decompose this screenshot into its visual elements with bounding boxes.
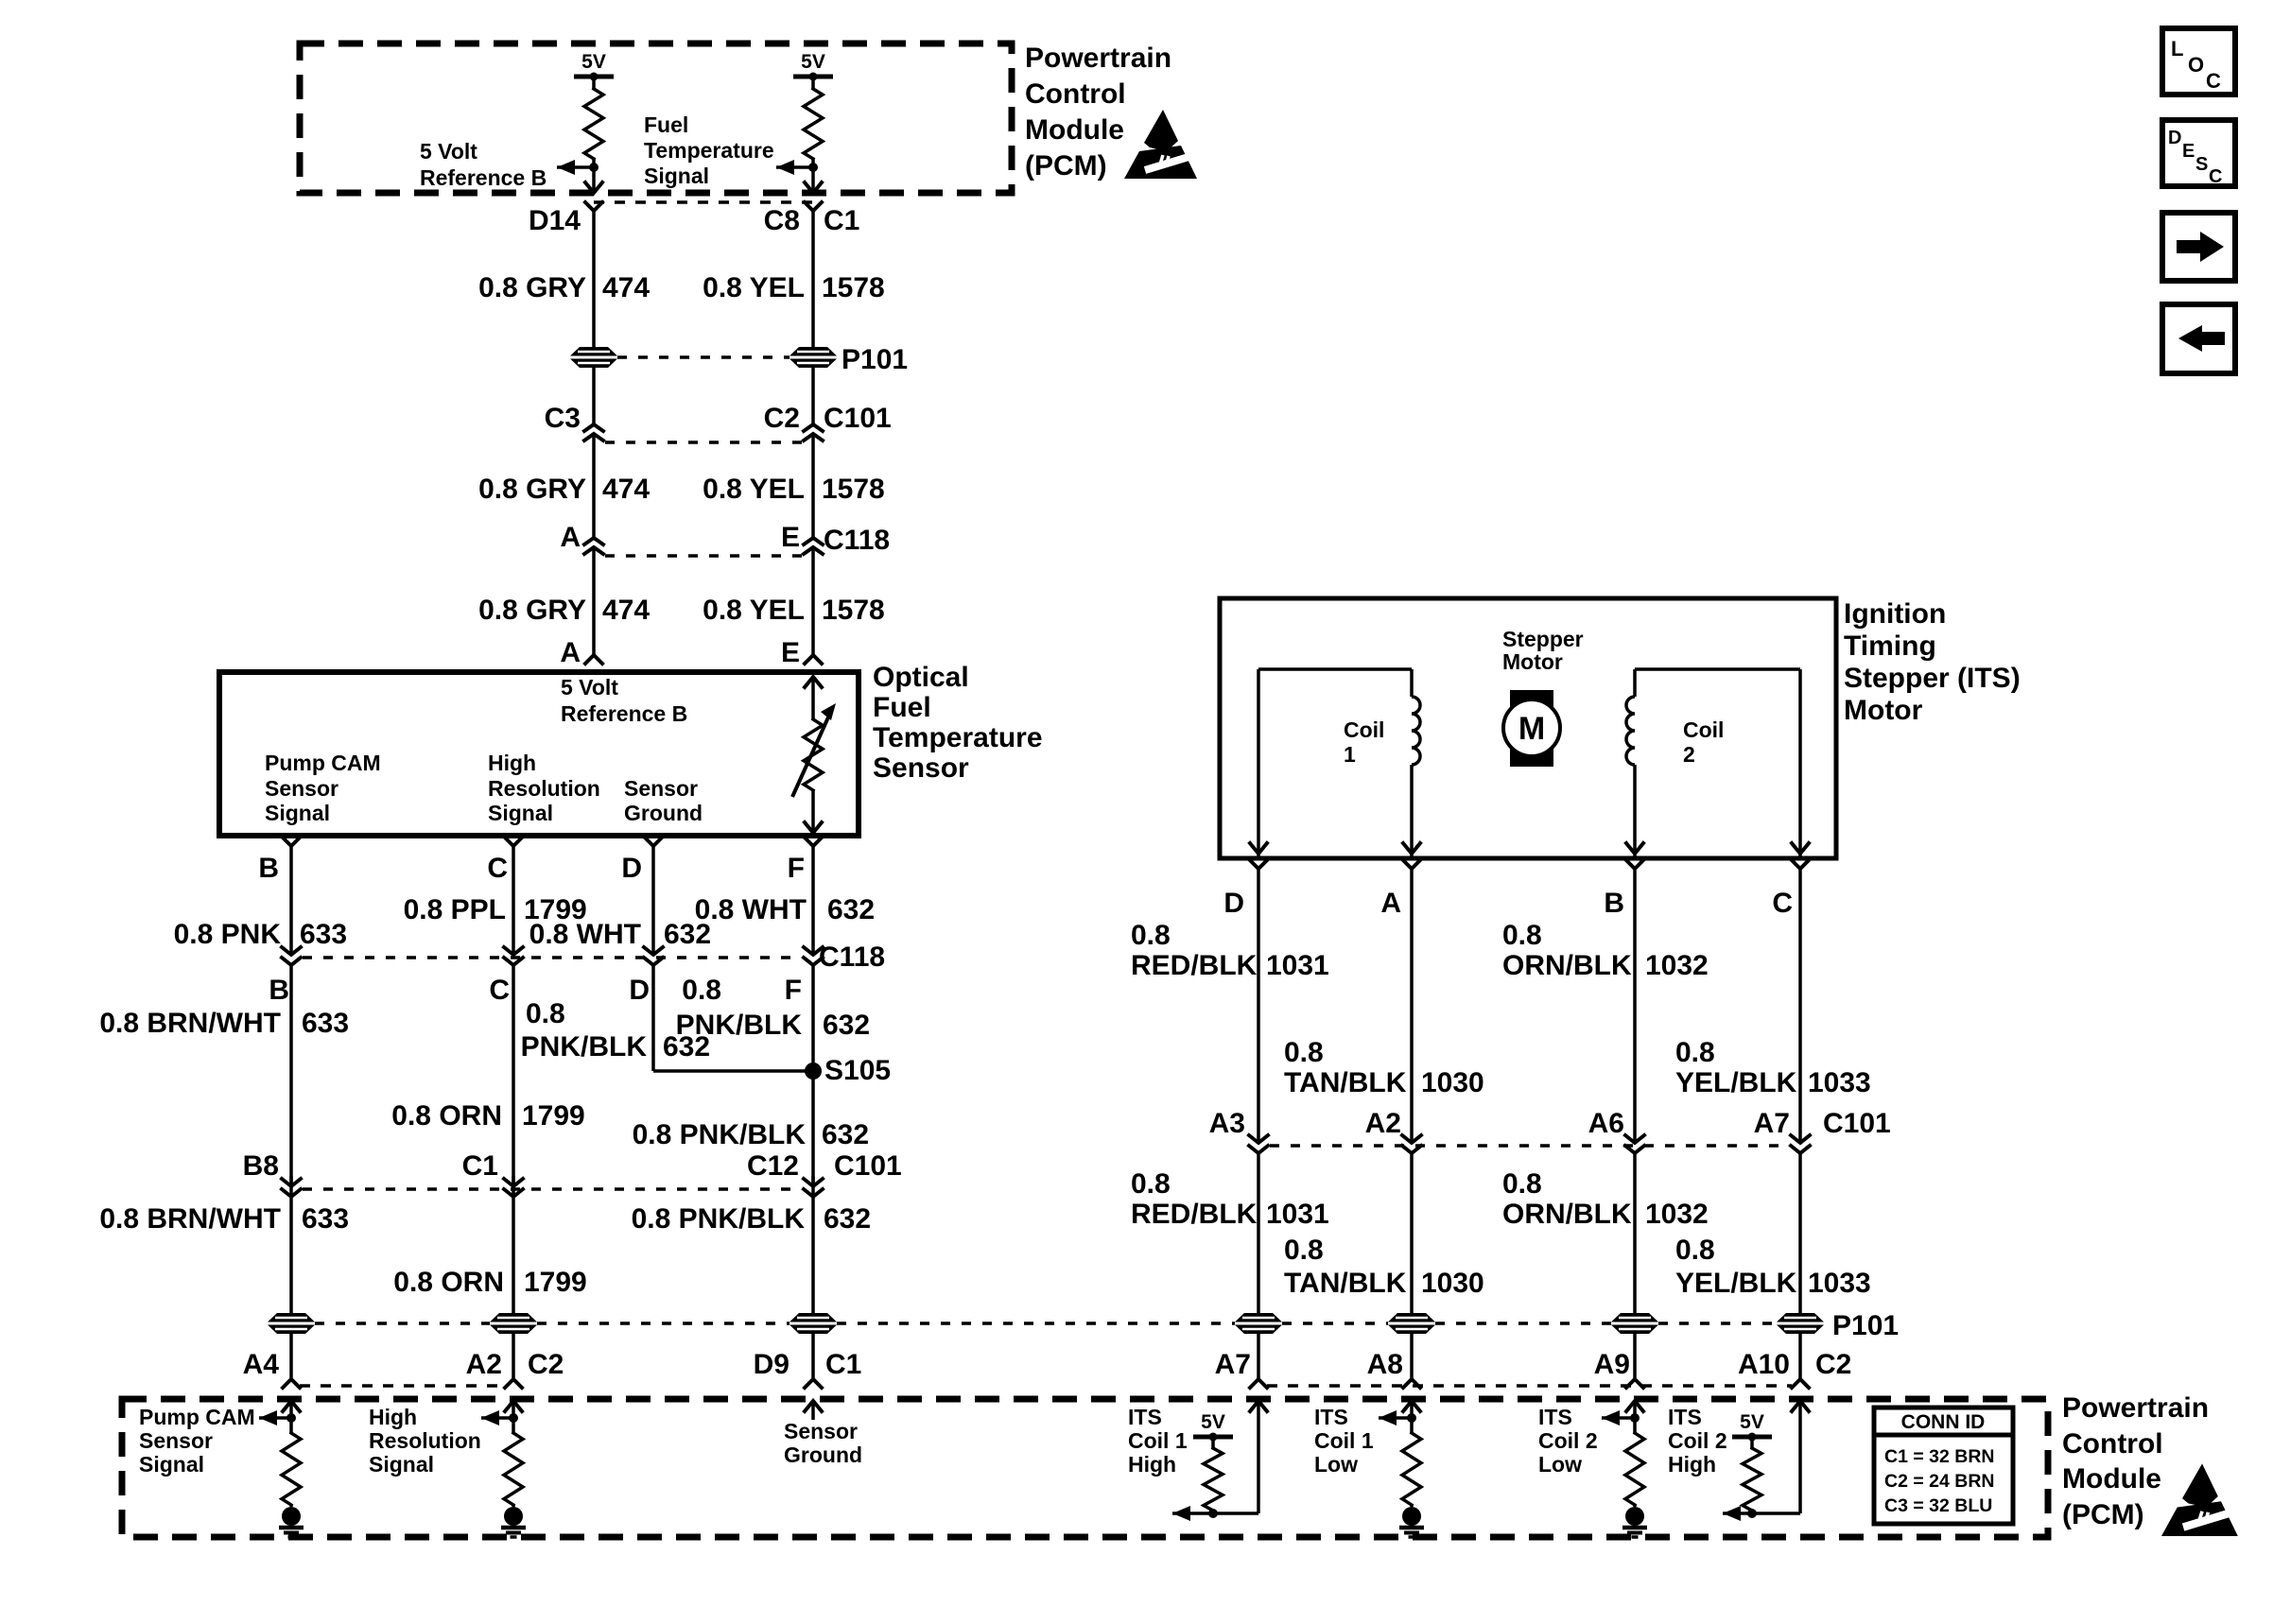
svg-text:C1 = 32 BRN: C1 = 32 BRN xyxy=(1884,1446,1995,1467)
svg-text:Motor: Motor xyxy=(1844,695,1923,726)
svg-text:0.8 PNK/BLK: 0.8 PNK/BLK xyxy=(632,1203,806,1235)
svg-text:1032: 1032 xyxy=(1645,950,1709,981)
svg-text:1032: 1032 xyxy=(1645,1199,1709,1230)
svg-text:C: C xyxy=(1772,888,1793,919)
svg-text:ITS: ITS xyxy=(1128,1405,1162,1429)
svg-text:1578: 1578 xyxy=(822,595,885,626)
svg-text:E: E xyxy=(781,637,800,668)
svg-text:P101: P101 xyxy=(1832,1310,1899,1341)
svg-text:High: High xyxy=(488,751,536,775)
svg-text:632: 632 xyxy=(663,1031,710,1063)
svg-text:0.8 YEL: 0.8 YEL xyxy=(703,474,805,505)
svg-text:ITS: ITS xyxy=(1314,1405,1348,1429)
svg-text:0.8 BRN/WHT: 0.8 BRN/WHT xyxy=(99,1008,281,1039)
svg-text:Reference B: Reference B xyxy=(420,165,547,190)
svg-text:A6: A6 xyxy=(1588,1108,1624,1139)
svg-text:1799: 1799 xyxy=(524,1267,587,1298)
svg-text:M: M xyxy=(1518,711,1545,747)
svg-text:C: C xyxy=(487,853,508,884)
svg-text:A: A xyxy=(560,637,581,668)
svg-text:ORN/BLK: ORN/BLK xyxy=(1502,950,1632,981)
svg-text:RED/BLK: RED/BLK xyxy=(1131,1199,1258,1230)
svg-text:E: E xyxy=(2182,141,2195,162)
svg-text:C1: C1 xyxy=(824,205,859,236)
svg-text:C3 = 32 BLU: C3 = 32 BLU xyxy=(1884,1495,1992,1516)
svg-text:A: A xyxy=(560,522,581,553)
svg-text:Low: Low xyxy=(1538,1452,1582,1477)
svg-text:S105: S105 xyxy=(824,1055,891,1086)
svg-text:Sensor: Sensor xyxy=(624,776,698,801)
svg-text:Coil 1: Coil 1 xyxy=(1314,1428,1374,1453)
svg-text:Fuel: Fuel xyxy=(873,692,931,723)
svg-text:1031: 1031 xyxy=(1266,1199,1329,1230)
svg-text:0.8: 0.8 xyxy=(1675,1235,1715,1266)
svg-text:A: A xyxy=(1380,888,1401,919)
svg-text:Module: Module xyxy=(2062,1463,2161,1494)
svg-text:0.8 PNK/BLK: 0.8 PNK/BLK xyxy=(633,1119,807,1150)
svg-text:Stepper: Stepper xyxy=(1502,627,1584,651)
svg-text:Coil 2: Coil 2 xyxy=(1538,1428,1598,1453)
svg-text:0.8 WHT: 0.8 WHT xyxy=(695,894,807,925)
svg-text:Powertrain: Powertrain xyxy=(2062,1392,2209,1424)
svg-text:1578: 1578 xyxy=(822,272,885,303)
svg-text:Signal: Signal xyxy=(369,1452,434,1477)
svg-text:A3: A3 xyxy=(1209,1108,1245,1139)
svg-text:YEL/BLK: YEL/BLK xyxy=(1675,1067,1797,1098)
svg-text:PNK/BLK: PNK/BLK xyxy=(521,1031,648,1063)
svg-text:C101: C101 xyxy=(824,403,892,434)
svg-text:C2: C2 xyxy=(764,403,800,434)
svg-text:F: F xyxy=(788,853,805,884)
svg-text:C12: C12 xyxy=(747,1150,799,1182)
svg-text:ITS: ITS xyxy=(1668,1405,1702,1429)
svg-text:0.8 ORN: 0.8 ORN xyxy=(393,1267,504,1298)
svg-text:1033: 1033 xyxy=(1808,1067,1871,1098)
svg-text:Sensor: Sensor xyxy=(873,752,969,784)
svg-text:C118: C118 xyxy=(824,525,890,556)
svg-text:633: 633 xyxy=(302,1203,349,1235)
svg-text:5 Volt: 5 Volt xyxy=(420,139,477,164)
svg-text:1799: 1799 xyxy=(522,1100,585,1132)
svg-text:L: L xyxy=(2171,37,2183,60)
svg-text:B8: B8 xyxy=(243,1150,279,1182)
svg-text:0.8: 0.8 xyxy=(1502,920,1542,951)
svg-text:Coil 2: Coil 2 xyxy=(1668,1428,1727,1453)
svg-text:0.8 ORN: 0.8 ORN xyxy=(391,1100,502,1132)
svg-text:A2: A2 xyxy=(466,1349,502,1380)
svg-text:High: High xyxy=(1128,1452,1176,1477)
svg-text:A4: A4 xyxy=(243,1349,280,1380)
svg-text:F: F xyxy=(785,975,802,1006)
svg-text:0.8: 0.8 xyxy=(526,998,565,1029)
svg-text:A7: A7 xyxy=(1215,1349,1251,1380)
svg-text:Optical: Optical xyxy=(873,662,969,693)
svg-text:1030: 1030 xyxy=(1421,1268,1484,1299)
svg-text:Motor: Motor xyxy=(1502,649,1563,674)
svg-text:TAN/BLK: TAN/BLK xyxy=(1284,1067,1407,1098)
svg-text:A9: A9 xyxy=(1594,1349,1630,1380)
svg-text:633: 633 xyxy=(302,1008,349,1039)
svg-text:0.8 BRN/WHT: 0.8 BRN/WHT xyxy=(99,1203,281,1235)
svg-text:C: C xyxy=(2209,166,2222,187)
svg-text:5V: 5V xyxy=(581,51,606,73)
svg-text:474: 474 xyxy=(602,474,650,505)
svg-text:C101: C101 xyxy=(1823,1108,1891,1139)
svg-text:Sensor: Sensor xyxy=(784,1419,858,1443)
svg-text:Pump CAM: Pump CAM xyxy=(139,1405,255,1429)
svg-text:1030: 1030 xyxy=(1421,1067,1484,1098)
svg-text:(PCM): (PCM) xyxy=(2062,1499,2144,1530)
svg-text:1033: 1033 xyxy=(1808,1268,1871,1299)
svg-text:A10: A10 xyxy=(1738,1349,1790,1380)
svg-text:Coil: Coil xyxy=(1344,717,1384,742)
svg-text:Sensor: Sensor xyxy=(265,776,338,801)
svg-text:0.8 YEL: 0.8 YEL xyxy=(703,272,805,303)
svg-text:RED/BLK: RED/BLK xyxy=(1131,950,1258,981)
svg-text:0.8 PNK: 0.8 PNK xyxy=(174,919,282,950)
svg-text:Ground: Ground xyxy=(784,1443,862,1467)
svg-text:TAN/BLK: TAN/BLK xyxy=(1284,1268,1407,1299)
svg-text:ITS: ITS xyxy=(1538,1405,1572,1429)
svg-text:474: 474 xyxy=(602,272,650,303)
svg-text:C: C xyxy=(489,975,510,1006)
svg-text:Resolution: Resolution xyxy=(488,776,600,801)
svg-text:5V: 5V xyxy=(1201,1411,1225,1433)
svg-text:YEL/BLK: YEL/BLK xyxy=(1675,1268,1797,1299)
svg-text:Timing: Timing xyxy=(1844,631,1936,662)
svg-text:0.8 GRY: 0.8 GRY xyxy=(478,474,586,505)
svg-text:Pump CAM: Pump CAM xyxy=(265,751,381,775)
svg-text:S: S xyxy=(2195,154,2208,175)
svg-text:5V: 5V xyxy=(1740,1411,1764,1433)
svg-text:474: 474 xyxy=(602,595,650,626)
svg-text:1578: 1578 xyxy=(822,474,885,505)
svg-text:C: C xyxy=(2206,69,2221,93)
svg-text:2: 2 xyxy=(1683,742,1695,767)
svg-text:High: High xyxy=(369,1405,417,1429)
svg-text:0.8 GRY: 0.8 GRY xyxy=(478,595,586,626)
svg-text:Fuel: Fuel xyxy=(644,112,688,137)
svg-text:D14: D14 xyxy=(529,205,581,236)
svg-text:1: 1 xyxy=(1344,742,1356,767)
svg-text:C8: C8 xyxy=(764,205,800,236)
svg-text:Signal: Signal xyxy=(488,801,553,825)
svg-text:(PCM): (PCM) xyxy=(1025,150,1107,181)
svg-text:Low: Low xyxy=(1314,1452,1358,1477)
svg-text:C118: C118 xyxy=(819,942,885,973)
svg-text:Temperature: Temperature xyxy=(644,138,774,163)
svg-text:C1: C1 xyxy=(825,1349,861,1380)
svg-text:5 Volt: 5 Volt xyxy=(561,675,618,700)
svg-text:1031: 1031 xyxy=(1266,950,1329,981)
svg-text:Signal: Signal xyxy=(644,164,709,188)
svg-text:0.8: 0.8 xyxy=(1131,1168,1171,1200)
svg-text:P101: P101 xyxy=(842,344,908,375)
svg-text:Ground: Ground xyxy=(624,801,703,825)
svg-text:C1: C1 xyxy=(462,1150,498,1182)
svg-text:B: B xyxy=(1604,888,1624,919)
svg-text:C2: C2 xyxy=(1815,1349,1851,1380)
svg-text:A2: A2 xyxy=(1365,1108,1401,1139)
svg-text:D9: D9 xyxy=(754,1349,789,1380)
svg-text:Control: Control xyxy=(2062,1428,2163,1460)
svg-text:Control: Control xyxy=(1025,78,1126,110)
svg-text:632: 632 xyxy=(824,1203,871,1235)
svg-text:D: D xyxy=(629,975,650,1006)
svg-text:O: O xyxy=(2188,53,2204,77)
svg-text:Coil 1: Coil 1 xyxy=(1128,1428,1188,1453)
svg-text:5V: 5V xyxy=(801,51,825,73)
svg-text:0.8 GRY: 0.8 GRY xyxy=(478,272,586,303)
svg-text:632: 632 xyxy=(823,1010,870,1041)
svg-text:Signal: Signal xyxy=(265,801,330,825)
svg-text:0.8: 0.8 xyxy=(1284,1037,1324,1068)
svg-text:Resolution: Resolution xyxy=(369,1428,481,1453)
svg-text:D: D xyxy=(1223,888,1244,919)
svg-text:0.8: 0.8 xyxy=(1131,920,1171,951)
svg-text:C3: C3 xyxy=(545,403,581,434)
svg-text:Reference B: Reference B xyxy=(561,701,687,726)
svg-text:Coil: Coil xyxy=(1683,717,1724,742)
svg-text:Powertrain: Powertrain xyxy=(1025,43,1171,74)
svg-text:Signal: Signal xyxy=(139,1452,204,1477)
svg-text:High: High xyxy=(1668,1452,1716,1477)
svg-text:C101: C101 xyxy=(834,1150,902,1182)
svg-text:D: D xyxy=(2168,128,2181,148)
svg-text:A8: A8 xyxy=(1367,1349,1403,1380)
svg-text:Module: Module xyxy=(1025,114,1124,146)
svg-text:0.8: 0.8 xyxy=(682,975,721,1006)
svg-text:ORN/BLK: ORN/BLK xyxy=(1502,1199,1632,1230)
svg-text:CONN ID: CONN ID xyxy=(1901,1411,1986,1433)
svg-text:633: 633 xyxy=(300,919,347,950)
svg-text:632: 632 xyxy=(827,894,875,925)
svg-text:C2: C2 xyxy=(528,1349,564,1380)
svg-text:B: B xyxy=(269,975,289,1006)
svg-text:Ignition: Ignition xyxy=(1844,598,1946,630)
svg-text:632: 632 xyxy=(822,1119,869,1150)
svg-text:0.8 PPL: 0.8 PPL xyxy=(404,894,506,925)
svg-text:0.8: 0.8 xyxy=(1284,1235,1324,1266)
svg-text:0.8 WHT: 0.8 WHT xyxy=(529,919,641,950)
svg-text:Temperature: Temperature xyxy=(873,722,1043,753)
svg-text:0.8: 0.8 xyxy=(1675,1037,1715,1068)
svg-text:D: D xyxy=(621,853,642,884)
svg-text:Sensor: Sensor xyxy=(139,1428,213,1453)
svg-text:C2 = 24 BRN: C2 = 24 BRN xyxy=(1884,1471,1995,1492)
svg-text:B: B xyxy=(258,853,279,884)
svg-text:E: E xyxy=(781,522,800,553)
svg-text:Stepper (ITS): Stepper (ITS) xyxy=(1844,663,2021,694)
svg-text:0.8 YEL: 0.8 YEL xyxy=(703,595,805,626)
svg-text:632: 632 xyxy=(664,919,711,950)
svg-text:A7: A7 xyxy=(1754,1108,1790,1139)
svg-text:0.8: 0.8 xyxy=(1502,1168,1542,1200)
